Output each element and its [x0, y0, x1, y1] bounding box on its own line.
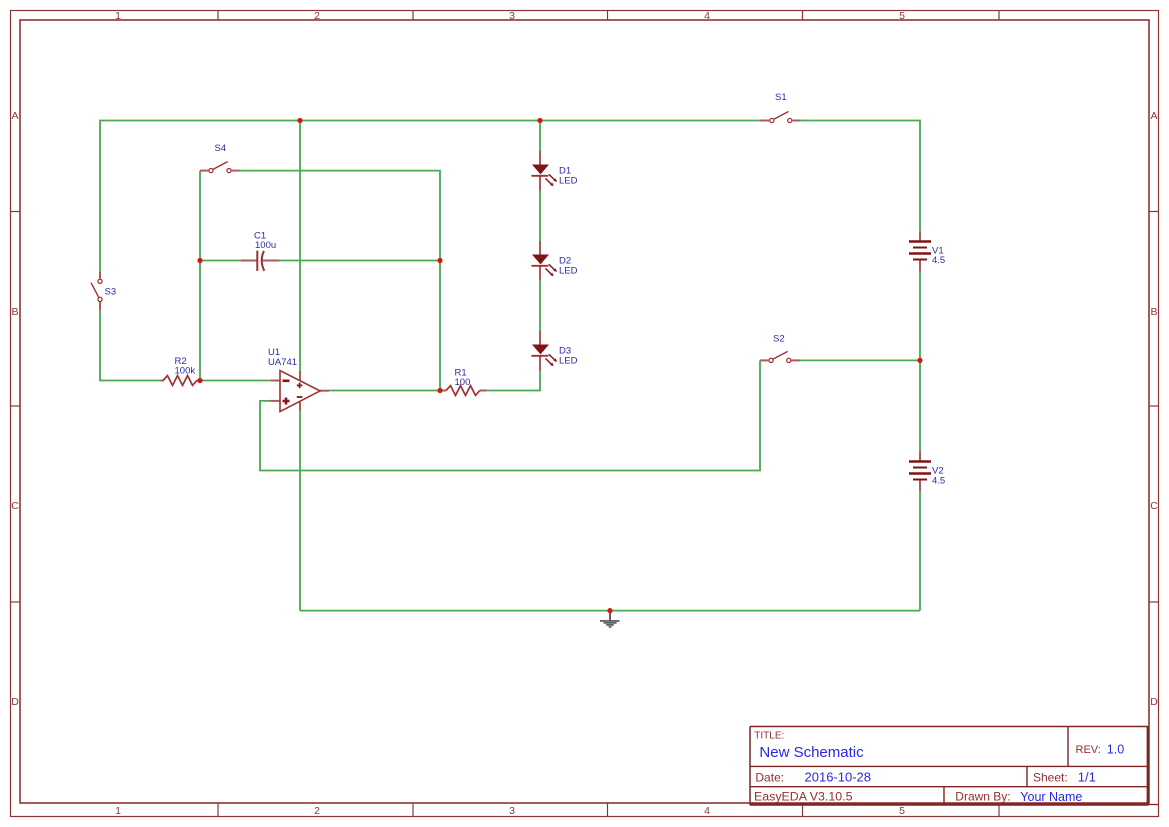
- svg-text:EasyEDA V3.10.5: EasyEDA V3.10.5: [754, 790, 853, 804]
- svg-text:LED: LED: [559, 176, 578, 187]
- switch S3: [91, 272, 116, 311]
- wire: top rail to D1 anode: [539, 121, 541, 152]
- svg-text:4.5: 4.5: [932, 255, 945, 266]
- junction node: C1 left: [197, 258, 202, 263]
- svg-text:100k: 100k: [175, 366, 196, 377]
- wire: top rail from left column to S1: [100, 121, 760, 272]
- wire: C1 left lead to x=200 branch: [200, 260, 240, 262]
- svg-text:2: 2: [314, 10, 320, 22]
- capacitor C1 100u (polarized): [240, 231, 279, 271]
- svg-text:4.5: 4.5: [932, 476, 945, 487]
- wire: D1 cathode to D2 anode: [539, 191, 541, 241]
- svg-text:4: 4: [704, 805, 710, 817]
- wire: top rail down to op-amp V+ pin: [299, 121, 301, 371]
- wire: S1 to right column down to V1: [801, 121, 921, 231]
- wire: R2 output to op-amp inverting input: [200, 380, 270, 382]
- wire: op-amp output to R1: [329, 390, 441, 392]
- svg-text:3: 3: [509, 10, 515, 22]
- svg-text:100: 100: [455, 377, 471, 388]
- switch S4: [200, 143, 240, 173]
- svg-text:100u: 100u: [255, 240, 276, 251]
- svg-text:A: A: [11, 110, 18, 122]
- svg-text:5: 5: [899, 10, 905, 22]
- junction node: ground on bottom rail: [607, 608, 612, 613]
- LED D1: [531, 151, 577, 191]
- wire: V2 bottom to bottom rail: [919, 491, 921, 611]
- svg-text:C: C: [11, 500, 19, 512]
- svg-text:S1: S1: [775, 92, 787, 103]
- svg-text:REV:: REV:: [1076, 744, 1101, 756]
- wire: S2 left lead loop to op-amp non-inverting input: [260, 360, 760, 470]
- svg-text:3: 3: [509, 805, 515, 817]
- svg-text:S2: S2: [773, 334, 785, 345]
- title block: [750, 727, 1159, 806]
- battery V1 4.5: [909, 231, 945, 271]
- wire: S3 bottom to R2: [100, 311, 161, 381]
- junction node: R1 / op-amp output: [437, 388, 442, 393]
- svg-text:S3: S3: [105, 287, 117, 298]
- svg-text:Date:: Date:: [755, 770, 784, 784]
- svg-text:1.0: 1.0: [1107, 743, 1124, 757]
- junction node: C1 right: [437, 258, 442, 263]
- svg-text:LED: LED: [559, 266, 578, 277]
- svg-text:B: B: [11, 306, 18, 318]
- junction node: S2 / V1 / V2: [917, 358, 922, 363]
- wire: V1 bottom to S2 junction: [919, 271, 921, 360]
- svg-text:New Schematic: New Schematic: [759, 744, 864, 761]
- resistor R2 100k: [161, 356, 201, 385]
- junction node: top rail / LED chain: [537, 118, 542, 123]
- wire: vertical branch at x=200 from S4 to R2 node: [199, 171, 201, 381]
- battery V2 4.5: [909, 451, 945, 491]
- svg-text:1: 1: [115, 805, 121, 817]
- svg-text:Your Name: Your Name: [1020, 790, 1082, 804]
- wire: S4 output across and down to R1 node: [240, 171, 440, 391]
- svg-text:2016-10-28: 2016-10-28: [805, 769, 872, 784]
- svg-text:Drawn By:: Drawn By:: [955, 790, 1010, 804]
- svg-text:TITLE:: TITLE:: [754, 731, 784, 742]
- svg-text:S4: S4: [215, 143, 227, 154]
- junction node: top rail / op-amp V+: [297, 118, 302, 123]
- svg-text:1/1: 1/1: [1078, 770, 1096, 785]
- svg-text:B: B: [1150, 306, 1157, 318]
- switch S1: [760, 92, 801, 123]
- svg-text:C: C: [1150, 500, 1158, 512]
- wire: bottom rail: [300, 610, 920, 612]
- wire: S2 right stub to right column: [800, 359, 920, 361]
- svg-text:D: D: [11, 696, 19, 708]
- svg-text:D: D: [1150, 696, 1158, 708]
- wire: R1 to LED chain bottom: [487, 362, 541, 390]
- svg-text:Sheet:: Sheet:: [1033, 771, 1068, 785]
- svg-text:5: 5: [899, 805, 905, 817]
- svg-text:1: 1: [115, 10, 121, 22]
- wire: C1 right lead to x=440 branch: [280, 260, 440, 262]
- svg-text:UA741: UA741: [268, 357, 297, 368]
- wire: op-amp V- pin down to bottom rail: [299, 411, 301, 611]
- op-amp U1 UA741: [268, 347, 329, 412]
- ground: [600, 611, 620, 627]
- svg-text:LED: LED: [559, 356, 578, 367]
- svg-text:A: A: [1150, 110, 1157, 122]
- resistor R1 100: [442, 368, 487, 396]
- svg-text:2: 2: [314, 805, 320, 817]
- LED D3: [531, 331, 577, 371]
- wire: D2 cathode to D3 anode: [539, 281, 541, 331]
- switch S2: [760, 334, 800, 363]
- LED D2: [531, 241, 577, 281]
- junction node: R2 / branch: [197, 378, 202, 383]
- wire: S2 junction down to V2: [919, 360, 921, 450]
- svg-text:4: 4: [704, 10, 710, 22]
